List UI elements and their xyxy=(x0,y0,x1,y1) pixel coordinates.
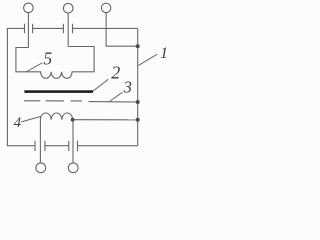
terminal T5 (bottom right) xyxy=(68,163,78,173)
leader line for label 2 xyxy=(93,79,108,91)
svg-text:1: 1 xyxy=(160,45,168,62)
movable member 3 (dashed link) xyxy=(24,100,82,102)
wire: lead from T2 down into core xyxy=(67,13,69,47)
terminal T3 (top right) xyxy=(101,3,110,12)
bushing bars bottom-right pair xyxy=(69,141,78,151)
coil 4 (3 humps) xyxy=(40,113,72,120)
core with winding 5 (U-shaped block, coil bumps on bottom) xyxy=(16,47,94,79)
junction dot on right wall at T3 wire xyxy=(136,44,140,48)
enclosure 1 : bottom wall segments (with bushing gaps) xyxy=(7,145,138,147)
leader line for label 3 xyxy=(109,92,123,102)
wire: coil 4 right end to right wall xyxy=(73,119,138,121)
svg-text:5: 5 xyxy=(43,48,52,68)
junction dot on right wall at coil 4 wire xyxy=(136,118,140,122)
terminal T4 (bottom left) xyxy=(36,163,46,173)
terminal T1 (top left) xyxy=(24,3,34,13)
terminal T2 (top middle) xyxy=(63,3,73,13)
enclosure 1 : left wall xyxy=(6,28,8,145)
bushing bars top-middle pair xyxy=(63,24,72,34)
bushing bars top-left pair xyxy=(25,24,33,34)
leader line for label 1 xyxy=(138,54,157,65)
junction dot at coil 4 right end xyxy=(71,118,75,122)
wire: lead from T1 down into core xyxy=(27,13,29,48)
junction dot on right wall at link 3 xyxy=(136,100,140,104)
wire: lead from T3 down then right to wall xyxy=(106,12,138,46)
contact bar 2 (thick) xyxy=(24,90,93,93)
wire: lead from coil 4 left end down to T4 xyxy=(39,120,41,164)
bushing bars bottom-left pair xyxy=(35,141,45,151)
leader line for label 5 xyxy=(26,63,43,72)
leader line for label 4 xyxy=(21,116,41,122)
svg-text:3: 3 xyxy=(123,78,132,97)
svg-text:2: 2 xyxy=(111,63,120,83)
wire: solid part of link 3 to right wall xyxy=(89,101,138,103)
enclosure 1 : right wall xyxy=(137,28,139,145)
wire: lead from coil 4 right end down to T5 xyxy=(72,120,74,163)
svg-text:4: 4 xyxy=(14,115,22,131)
enclosure 1 : top wall segments (with bushing gaps) xyxy=(7,27,138,29)
